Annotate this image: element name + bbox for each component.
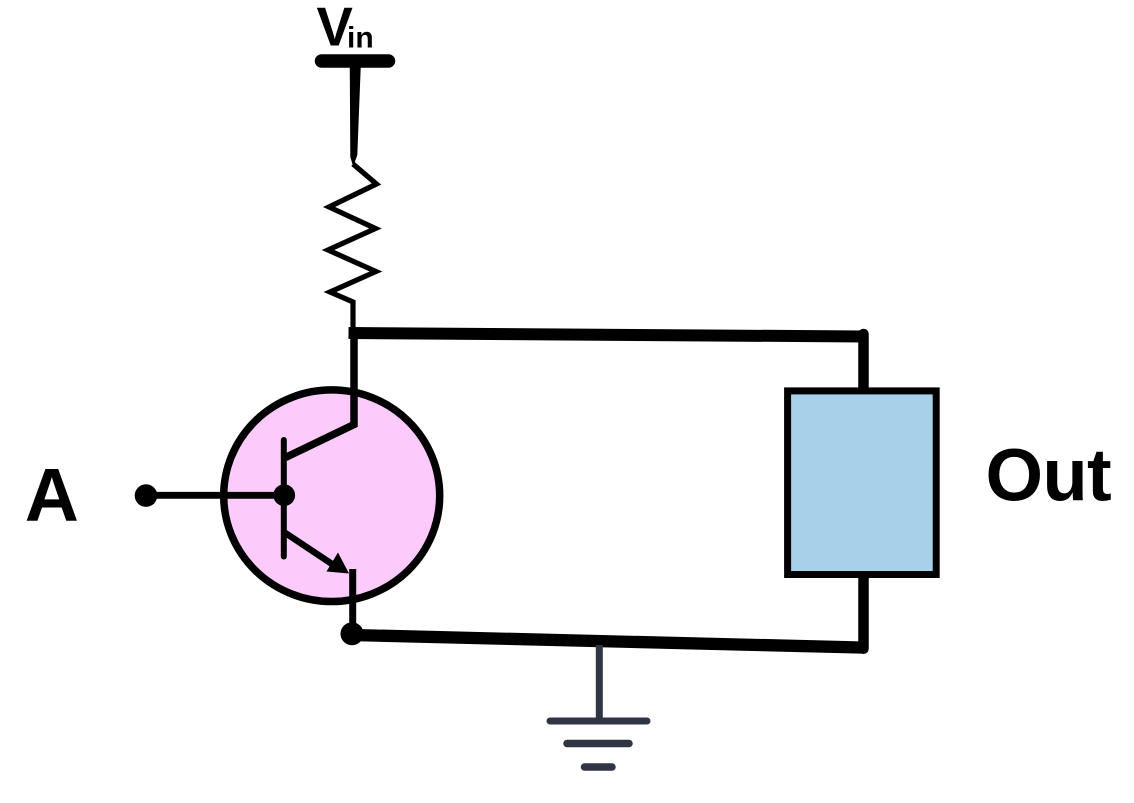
svg-text:in: in xyxy=(347,22,374,55)
power rail Vin bar xyxy=(322,54,389,68)
ground bar 2 xyxy=(567,740,629,748)
resistor R1 xyxy=(328,164,377,332)
load block (Out) xyxy=(788,391,937,575)
label Vin xyxy=(317,0,374,57)
svg-text:Out: Out xyxy=(986,434,1112,517)
wire input A to base xyxy=(146,492,283,499)
wire top horizontal xyxy=(349,333,864,337)
junction dot at emitter node xyxy=(341,622,364,645)
svg-text:A: A xyxy=(25,453,79,537)
wire bottom right vertical from load xyxy=(858,575,869,649)
wire Vin rail to resistor xyxy=(350,55,362,167)
ground stem xyxy=(596,645,603,719)
transistor Q1 collector lead xyxy=(286,392,355,458)
ground bar 1 xyxy=(550,718,647,725)
transistor Q1 body xyxy=(224,390,440,602)
wire bottom horizontal xyxy=(352,635,861,648)
node A input terminal dot xyxy=(135,484,158,507)
transistor Q1 base bar xyxy=(281,440,287,557)
wire collector node to top rail (vertical) xyxy=(286,330,355,458)
transistor Q1 emitter arrowhead xyxy=(327,553,350,574)
wire top right vertical to load xyxy=(858,334,869,390)
wire emitter vertical xyxy=(349,569,356,630)
ground bar 3 xyxy=(585,763,613,771)
junction dot at base xyxy=(273,484,295,506)
transistor Q1 emitter lead xyxy=(285,533,335,566)
